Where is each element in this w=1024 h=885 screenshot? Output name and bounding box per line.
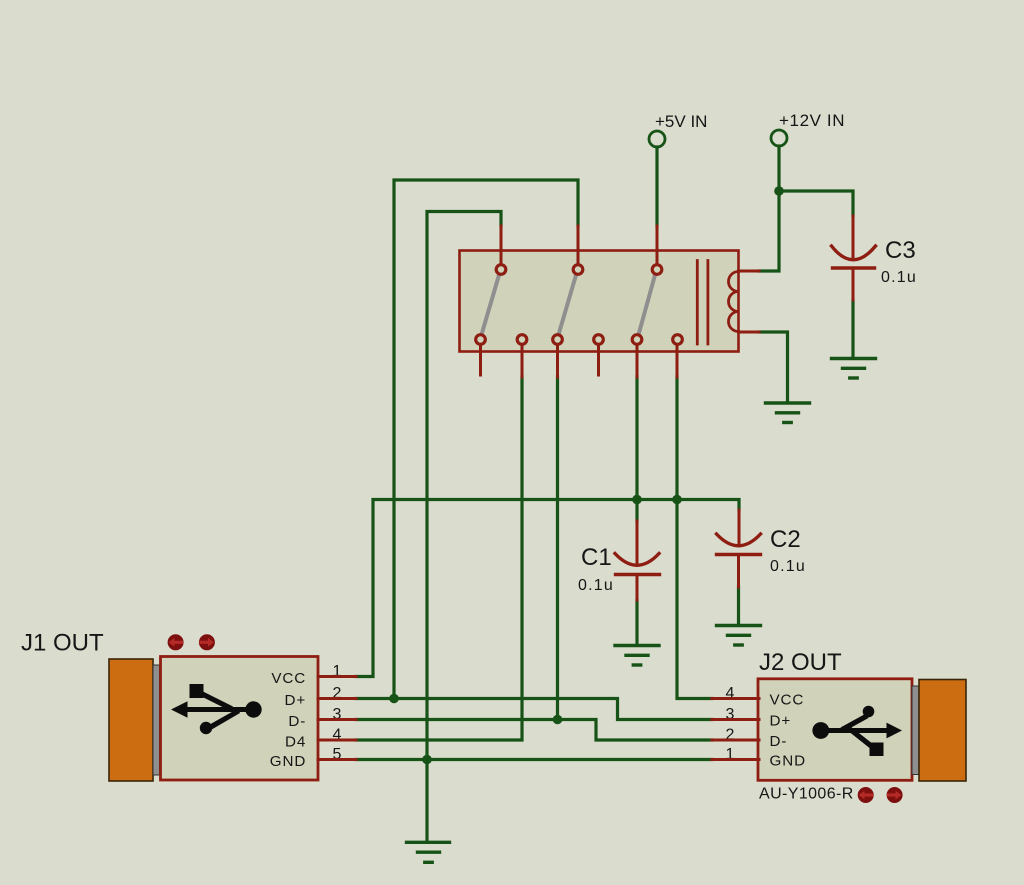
svg-text:C3: C3 [885,237,916,264]
wire relay top pin1 to GND junction and ground [427,212,501,843]
relay coil bottom wire stub [739,331,760,334]
svg-text:AU-Y1006-R: AU-Y1006-R [759,786,854,803]
J2 marker right-arrow [887,787,903,803]
svg-text:J1 OUT: J1 OUT [21,630,104,657]
svg-text:0.1u: 0.1u [578,577,614,594]
svg-text:+5V IN: +5V IN [655,112,707,131]
J1 USB icon [171,684,262,734]
connector J1 orange plug [109,659,153,781]
wire +12V terminal down to junction [777,146,780,191]
wire GND bus J1 pin5 to J2 GND [356,758,712,761]
relay coil top wire stub [739,270,760,273]
ground C1 [615,646,659,666]
wire junction to relay coil top [759,191,779,271]
relay top pin stub 2 [577,226,580,264]
svg-text:0.1u: 0.1u [881,269,917,286]
wire C2 bottom to ground [737,587,740,624]
wire junction to C3 top [779,191,853,216]
svg-text:0.1u: 0.1u [770,558,806,575]
J1 marker left-arrow [168,634,184,650]
connector J2 body [758,679,912,781]
capacitor C3 [832,216,917,300]
J2 marker left-arrow [858,787,874,803]
relay bottom pin stub 6 [676,345,679,377]
svg-text:VCC: VCC [770,692,805,709]
svg-text:VCC: VCC [271,670,306,687]
terminal +12V IN [771,111,845,146]
relay bottom pin stub 5 [636,345,639,377]
wire VCC bus J1 pin1 up and across [356,500,739,677]
relay bottom pin stub 3 [556,345,559,377]
svg-text:D-: D- [770,733,788,750]
J2 pin stub 4 [712,697,759,700]
junction GND node [422,755,432,765]
wire relay bottom pin2 to J1 D4 [356,377,522,740]
relay bottom pin stub 2 [521,345,524,377]
relay top pin stub 1 [500,226,503,264]
capacitor C2 [717,510,806,587]
ground coil [766,403,810,423]
wire relay coil bottom to ground [759,332,788,402]
relay bottom pin circle 3 [553,335,563,345]
relay top pin stub 3 [656,226,659,264]
J1 pin stub 3 [318,718,356,721]
svg-text:GND: GND [770,753,806,770]
wire C1 top lead green [635,500,638,522]
connector J2 orange plug [919,680,966,782]
svg-text:D-: D- [288,713,306,730]
connector J2 grey insert [912,686,919,775]
J1 pin stub 4 [318,739,356,742]
J2 pin stub 2 [712,739,759,742]
terminal +5V IN [649,112,707,147]
svg-text:J2 OUT: J2 OUT [759,649,842,676]
connector J1 body [161,657,319,781]
relay bottom pin circle 1 [476,335,486,345]
ground C2 [717,626,761,646]
J2 pin stub 3 [712,718,759,721]
connector J1 grey insert [153,665,160,775]
relay bottom pin circle 4 [594,335,604,345]
ground GND bus [407,842,450,862]
junction VCC C2 [672,495,682,505]
relay coil arcs [729,272,739,332]
relay bottom pin stub 1 [479,345,482,375]
relay switch arm 3 [639,275,655,333]
J1 pin stub 5 [318,758,356,761]
relay bottom pin circle 2 [517,335,527,345]
svg-text:+12V IN: +12V IN [779,111,845,130]
wire +5V terminal to relay pin [655,147,658,226]
svg-text:D4: D4 [285,734,306,751]
svg-text:C1: C1 [581,544,612,571]
wire C1 bottom to ground [635,600,638,644]
relay top pin circle 3 [652,265,662,275]
J2 USB icon [812,706,902,756]
junction D+ node [389,694,399,704]
relay switch arm 2 [559,275,576,333]
wire relay bottom pin3 to D- junction [556,377,559,720]
junction D- node [553,715,563,725]
svg-text:D+: D+ [285,692,307,709]
relay RL1 body [460,251,739,352]
wire D- J1 pin3 to J2 D- [356,720,712,741]
ground C3 [832,359,876,379]
relay coil bars [697,261,708,345]
J2 pin stub 1 [712,758,759,761]
svg-text:D+: D+ [770,713,792,730]
relay bottom pin circle 5 [632,335,642,345]
J1 marker right-arrow [199,634,215,650]
relay switch arm 1 [482,275,499,333]
svg-text:C2: C2 [770,526,801,553]
relay bottom pin stub 4 [597,345,600,375]
capacitor C1 [578,521,660,600]
wire relay bottom pin6 through VCC junction to J2 VCC [677,377,712,699]
relay top pin circle 2 [573,265,583,275]
svg-text:GND: GND [270,753,306,770]
relay top pin circle 1 [496,265,506,275]
wire C3 bottom to ground [851,300,854,357]
wire relay top pin2 to D+ junction [394,180,578,699]
wire D+ J1 pin2 to J2 D+ [356,699,712,720]
J1 pin stub 1 [318,675,356,678]
wire relay bottom pin5 to C1 junction [635,377,638,500]
junction +12V node [774,186,784,196]
relay bottom pin circle 6 [673,335,683,345]
J1 pin stub 2 [318,697,356,700]
junction VCC C1 [632,495,642,505]
